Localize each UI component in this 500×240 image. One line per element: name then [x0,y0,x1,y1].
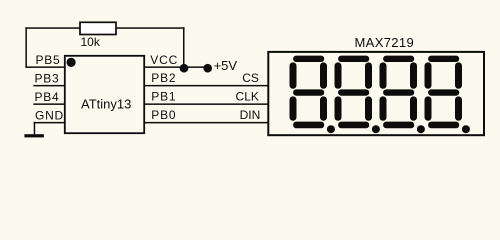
svg-text:GND: GND [35,108,64,122]
decimal point 3 [417,125,425,133]
junction dot resistor/VCC [180,64,189,73]
wire PB1 to CLK [144,103,268,105]
svg-text:PB3: PB3 [34,72,59,86]
decimal point 1 [327,125,335,133]
wire PB5 pin stub [25,66,65,68]
wire resistor to +5V node horizontal [116,27,185,29]
ground symbol bar [24,134,44,137]
decimal point 2 [372,125,380,133]
svg-text:+5V: +5V [214,58,238,73]
wire PB5 feed top horizontal left [25,27,80,29]
7-segment digit 4 [425,56,463,129]
resistor R1 10k body [80,22,116,34]
7-segment digit 3 [380,56,418,129]
wire PB4 pin stub [33,103,65,105]
svg-text:PB4: PB4 [34,90,59,104]
7-segment digit 1 [290,56,328,129]
svg-text:PB5: PB5 [35,53,60,67]
svg-text:PB0: PB0 [151,108,176,122]
7-segment digit 2 [335,56,373,129]
svg-text:ATtiny13: ATtiny13 [81,97,131,112]
pin-1 marker dot [67,58,76,67]
svg-text:PB1: PB1 [151,90,176,104]
svg-text:DIN: DIN [240,108,261,122]
svg-text:10k: 10k [81,35,101,49]
decimal point 4 [462,125,470,133]
svg-text:MAX7219: MAX7219 [355,35,415,50]
wire +5V node vertical drop [183,27,185,67]
display module MAX7219 box [268,52,484,135]
IC U1 ATtiny13 box [65,56,144,133]
wire PB0 to DIN [144,122,268,124]
wire VCC row [144,66,208,68]
svg-text:VCC: VCC [150,53,178,67]
wire PB5 feed vertical left [25,27,27,67]
wire GND pin stub [34,122,66,124]
node +5V terminal dot [203,64,212,73]
wire PB2 to CS [144,85,268,87]
wire PB3 pin stub [33,85,65,87]
svg-text:PB2: PB2 [151,71,176,85]
ground symbol stub [34,122,36,135]
svg-text:CLK: CLK [236,90,259,104]
svg-text:CS: CS [242,71,259,85]
